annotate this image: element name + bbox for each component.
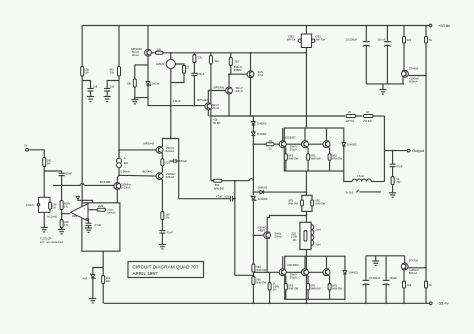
wire BC549B emitter down to box [116,189,118,202]
resistor 3k3 (VAS load top) [209,53,219,116]
transistor driver NPN BD241C [234,65,264,78]
node 560 line tap x=234.8 [234,180,236,182]
label To 3k3 feedback stub [345,190,381,194]
wire rail B gap join [118,150,120,158]
ground (below 1n8 right) [104,97,111,102]
resistor 22K 1% (input shunt) [49,202,57,209]
wire driver emitter down to rail [250,78,252,116]
resistor 0R1 WW-5W (upper 3) [328,148,342,171]
wire bus below L block to lower box [305,250,307,257]
diode 1N4003 (upper ladder 1) [252,122,267,126]
transistor MJ15003 upper 3 [323,128,330,148]
svg-text:1N4003: 1N4003 [257,132,267,136]
transistor lower driver BD240C [258,225,282,238]
svg-text:20mA: 20mA [212,106,219,110]
svg-text:10: 10 [366,110,369,114]
svg-text:25mA: 25mA [290,276,297,280]
resistor 0R1 WW-5W (lower 1) [284,276,298,300]
node 3k3 bottom rail [403,302,405,304]
resistor 820R 1% [60,185,70,209]
svg-text:WW-5W: WW-5W [288,157,298,161]
resistor 0R1 WW-5W (upper 2) [307,148,321,171]
wire branch to zener 4v8 [93,268,103,275]
ground (input network) [41,228,48,232]
wire input node line y=185.4 with hop [53,183,114,185]
wire branch to 100nF [44,171,61,173]
ground (top strip) [380,84,387,94]
node 100pF base line [194,105,196,107]
svg-text:WW-5W: WW-5W [256,268,266,272]
capacitor 100uF (top) [377,26,391,84]
wire cap2 to ground [106,91,108,97]
svg-text:MJ15003: MJ15003 [285,135,297,139]
wire cap to ground [90,91,92,97]
inductor 1.5uH output coil [352,174,371,182]
wire bus below 0R3 block [305,211,307,222]
diode LM329 [156,53,175,73]
node driver PNP base tap [253,234,255,236]
wire cap box to ground [43,212,45,227]
node base line LM329 [170,105,172,107]
ground (below 22K) [58,230,65,234]
svg-text:WW-5W: WW-5W [332,157,342,161]
svg-text:MJ15003: MJ15003 [288,263,300,267]
wire 10k bottom [135,87,148,98]
svg-text:1N4003: 1N4003 [257,122,267,126]
capacitor 47uF 63V [179,194,235,201]
svg-text:1N4003: 1N4003 [347,143,357,147]
box lower output devices [285,256,345,299]
svg-text:1%: 1% [165,215,169,219]
svg-text:WW-5W: WW-5W [332,286,342,290]
box upper output devices [284,128,344,171]
diode 1N4003 (upper box edge) [342,143,357,147]
svg-text:4v8: 4v8 [83,277,88,281]
svg-text:100: 100 [157,47,162,51]
node 47uF to drop wire [234,198,236,200]
svg-text:1%: 1% [64,205,68,209]
wire driver base line [229,73,247,75]
node VAS top tie [170,138,172,140]
svg-text:3uH: 3uH [316,243,321,247]
label TL071CP note [40,236,63,244]
svg-text:0.8mA: 0.8mA [173,99,181,103]
node upper base line tap [253,143,255,145]
node Output terminal [407,148,425,153]
svg-text:27k: 27k [198,56,203,60]
svg-text:To 3k3: To 3k3 [345,190,353,194]
resistor 23 [183,66,190,74]
capacitor 100uF input electrolytic box [26,197,50,212]
svg-text:WW-5W: WW-5W [288,286,298,290]
svg-text:8x3mA: 8x3mA [166,149,175,153]
resistor 1k2 2W [102,276,111,284]
svg-text:1.5uH: 1.5uH [357,174,364,178]
transistor MPSA92 (upper, at 229,90.5) [214,86,243,94]
transistor MPSA92 (lower, at 208,106.3) [197,98,219,110]
wire BC549C emitter down [161,179,163,211]
svg-text:ZTX750: ZTX750 [409,259,419,263]
ground (below 1n8 left) [87,97,94,102]
wire upper output base line [253,143,266,145]
wire bus connector to rail [305,48,307,129]
svg-text:WW-5W: WW-5W [288,202,298,206]
wire bus through lower box to rail [305,256,307,303]
wire current source to node [118,168,120,176]
resistor 22K 1% (lower) [60,220,69,230]
node bus rail junction [306,115,308,117]
svg-text:CIRCUIT DIAGRAM QUAD 707: CIRCUIT DIAGRAM QUAD 707 [133,264,199,269]
svg-text:15v/1W: 15v/1W [150,81,160,85]
resistor 15k 1W [81,67,90,77]
wire drop to MPSA93 [147,26,149,50]
ground (bottom strip) [372,256,379,266]
wire ladder B to bottom rail [252,285,254,304]
svg-text:1%: 1% [293,238,297,242]
zener 15v 1W [146,79,159,98]
resistor 5k (top right) [425,26,433,44]
diode 1N4003 (lower box edge) [343,271,358,275]
resistor 560 WW-5W (ladder A) [252,264,267,272]
resistor 0R3 WW-5W with 0R1 WW-5W parallel block [288,195,326,211]
wire lower base line inside box [286,271,323,273]
resistor 0R1 WW-5W (upper 1) [284,148,298,171]
node ZTX750 base tap [425,267,427,269]
svg-text:(+15mV): (+15mV) [47,214,57,218]
transistor ZTX450 [402,67,420,84]
svg-text:420mA: 420mA [166,175,175,179]
wire MPSA92 emitter down to rail [207,110,209,116]
wire ladder top from rail [252,116,254,122]
svg-text:2k0: 2k0 [124,161,129,165]
svg-text:WW-5W: WW-5W [311,286,321,290]
wire VAS stub y=180.7 [211,116,214,181]
transistor BC549C [143,169,177,179]
ground flag symbol above op-amp [76,196,92,202]
capacitor 10,000uF (bottom) [363,256,381,303]
wire mid collector rail [210,115,346,117]
svg-text:0.56mA: 0.56mA [121,170,130,174]
wire input to 560 [28,150,44,158]
resistor 100 (horizontal) [151,47,163,54]
wire y=52.8 line to bus [163,52,306,54]
svg-text:R//B: R//B [72,214,77,218]
wire MPSA93 emitter down to zener node [147,56,149,78]
svg-text:APRIL 1997: APRIL 1997 [133,271,158,276]
transistor MJ15003 lower 2 [302,256,309,276]
capacitor 33nF [159,230,173,244]
resistor 1k 1/2W 1% [268,272,279,303]
svg-text:350: 350 [234,60,239,64]
svg-text:33nF: 33nF [167,230,173,234]
resistor 0R1 WW-5W (lower 2) [307,276,321,300]
node ladder base line lower [253,271,255,273]
svg-text:1n8: 1n8 [110,85,115,89]
node bottom cap2 rail [385,302,387,304]
wire LM329 right branch to 23 resistor [175,64,184,66]
node -53.4v terminal [429,301,448,306]
wire Miller branch x=178.7 [178,139,180,199]
wire MPSA06 collector up to driver base line [228,74,230,87]
svg-text:25mA: 25mA [290,148,297,152]
resistor 22 2W 5% [346,110,356,123]
wire right output corner drop [383,116,385,182]
svg-text:-: - [171,70,172,73]
wire coil to upper box corner [344,171,352,182]
svg-text:WW-5W: WW-5W [256,280,266,284]
svg-text:WW-5W: WW-5W [315,202,325,206]
zener 1N4003 (ladder mid) [251,196,268,201]
svg-text:2M2: 2M2 [98,204,104,208]
wire link from x234.8 [235,274,254,276]
svg-text:3k3: 3k3 [214,59,219,63]
wire ladder to driver base [252,200,254,264]
node Miller cap join [178,160,180,162]
node driver collector bus junction [306,215,308,217]
svg-text:100uF: 100uF [26,203,34,207]
svg-text:MPSA92: MPSA92 [197,98,208,102]
svg-text:22: 22 [348,110,351,114]
node zobel tap [392,150,394,152]
node LM329 tap [170,52,172,54]
node IN terminal [25,143,29,151]
svg-text:4.7uF: 4.7uF [94,223,101,227]
capacitor 10,000uF (top) [346,26,370,84]
capacitor 1n8 (right) [104,85,114,91]
svg-text:1W: 1W [85,71,89,75]
svg-text:100nF: 100nF [64,171,72,175]
svg-text:2W: 2W [396,180,400,184]
svg-text:1n8: 1n8 [93,85,98,89]
resistor 1k5 1% [161,212,170,231]
wire LM329 column down to VAS top [170,106,172,139]
svg-text:1%: 1% [47,162,51,166]
wire driver base line [253,234,263,236]
inductor damped L-R block 220 1/2W [291,222,321,249]
ground (below 10k) [131,98,138,104]
svg-text:2W: 2W [106,279,110,283]
box servo shield [82,203,120,251]
svg-text:LM329: LM329 [156,62,165,66]
zener 4v8 [83,274,96,299]
transistor MJ15003 upper 1 [279,128,297,152]
wire ZTX750 emitter to strip [404,256,406,263]
connector GB1 [287,26,326,48]
capacitor 330pF [170,159,188,163]
svg-text:MPSA06: MPSA06 [214,86,225,90]
svg-text:2uH: 2uH [316,228,321,232]
op-amp TL071 [71,204,89,221]
svg-text:10,000uF: 10,000uF [346,37,358,41]
svg-text:IN: IN [25,143,28,147]
wire 23 bottom joins LM329 bottom [171,73,184,83]
svg-text:1%: 1% [52,205,56,209]
svg-text:2R: 2R [269,139,272,143]
node ladder rail [253,115,255,117]
svg-text:1/5 : not connected: 1/5 : not connected [40,240,63,244]
node MPSA43 base tap [118,149,120,151]
svg-text:1%: 1% [64,223,68,227]
svg-text:WH-Slt: WH-Slt [287,38,296,42]
wire ZTX450 emitter to strip [402,77,404,84]
svg-text:WH-Twt: WH-Twt [316,38,326,42]
svg-text:3mA: 3mA [258,73,264,77]
svg-text:1N4003: 1N4003 [258,186,268,190]
node bottom cap1 rail [365,302,367,304]
diode 1N4003 (upper ladder 2) [252,132,267,136]
wire top supply rail [82,25,429,27]
wire MPSA06 emitter to rail [228,94,230,116]
svg-text:20mA: 20mA [236,89,243,93]
svg-text:MPSA43: MPSA43 [144,142,155,146]
wire top ground strip [366,83,404,85]
resistor 10 2W 5% [363,110,373,123]
svg-text:-53.4v: -53.4v [438,301,449,306]
wire y=192 line from ladder to bus [253,191,306,193]
node BC549C base line [118,174,120,176]
capacitor 47uF zobel [390,151,403,177]
ground (zobel) [389,193,396,197]
node ladder bottom rail [253,302,255,304]
svg-text:500mA: 500mA [409,79,418,83]
wire LM329 bottom down to base line [170,69,172,106]
resistor 220 [161,159,170,173]
node ladder 192 tap [253,191,255,193]
svg-text:+53.8v: +53.8v [438,23,450,28]
svg-text:1N4003: 1N4003 [348,271,358,275]
node driver base line [228,73,230,75]
wire ZTX750 base line [408,267,426,269]
resistor 2M2 feedback sense [88,204,116,215]
svg-text:150uF: 150uF [389,276,397,280]
svg-text:+4BF1: +4BF1 [258,228,266,232]
svg-text:330pF: 330pF [179,159,187,163]
wire ladder down through taps [252,136,254,196]
svg-text:25mw: 25mw [275,234,282,238]
wire rail B x=119 [118,26,120,159]
node 1k bottom rail [269,302,271,304]
svg-text:3k3: 3k3 [407,38,412,42]
ground (op-amp cap) [85,228,92,232]
svg-text:drivout: drivout [107,211,115,215]
ground (zener 4v8) [89,299,96,303]
wire lower driver emitter down [266,239,268,273]
svg-text:1N4003: 1N4003 [258,197,268,201]
resistor 10k [127,65,149,87]
transistor BC549B (servo buffer) [100,180,131,189]
wire branch to cap 1n8 right [107,81,119,89]
svg-text:WW-5W: WW-5W [311,157,321,161]
wire bottom ground strip [366,255,405,257]
title box CIRCUIT DIAGRAM QUAD 707 APRIL 1997 [128,262,204,278]
transistor MJ15003 lower 1 [279,256,297,279]
resistor 3k3 (bottom right) [403,270,412,303]
svg-text:47uF: 47uF [396,164,402,168]
wire output line left of corner [371,181,384,183]
wire bottom supply rail [104,302,430,304]
resistor 3k3 (top right) [403,26,412,71]
wire mid rail segment to right corner [374,115,385,117]
svg-text:100 uF: 100 uF [377,37,386,41]
transistor ZTX750 [401,259,419,276]
capacitor 4.7uF op-amp [86,219,102,228]
resistor 0R1 WW-5W (lower 3) [328,276,342,300]
node 100nF junction [61,185,63,187]
node 192 bus junction [306,191,308,193]
svg-text:1W: 1W [110,71,114,75]
wire mid rail segment between bridge resistors [356,115,363,117]
capacitor 100nF [59,171,73,185]
wire lower output base line [253,271,279,273]
wire 560 down to cap box [43,167,45,198]
svg-text:2W 5%: 2W 5% [346,119,355,123]
resistor 350 [229,53,239,74]
svg-text:YE BK: YE BK [213,121,221,125]
wire MPSA43 base line [119,149,156,151]
wire base line to BC549C [119,174,156,177]
wire MPSA43 collector up to top tie [162,139,178,147]
svg-text:WW-5W: WW-5W [214,186,224,190]
svg-text:A: A [124,156,126,160]
wire driver collector up to y53 line [250,53,252,71]
svg-text:23: 23 [186,66,189,70]
node lower box bottom rail [306,302,308,304]
node driver collector [250,52,252,54]
resistor 22R base feed [266,139,279,151]
svg-text:TL071CP: TL071CP [40,236,52,240]
svg-text:500mA: 500mA [409,271,418,275]
transistor MPSA93 [131,47,151,57]
svg-text:44BF2: 44BF2 [234,68,242,72]
wire bus through upper box [305,171,307,195]
wire output line to terminal [384,150,407,152]
node ZTX450 base tap [425,75,427,77]
capacitor 100pF [191,63,204,106]
node +53.8v terminal [429,23,450,28]
capacitor 1n8 (left) [88,85,98,91]
wire 560 to ladder with hop [222,179,253,181]
wire zener node down and right to MPSA92 base line [148,98,205,106]
svg-text:10,000uF: 10,000uF [369,276,381,280]
capacitor 100uF (bottom) [383,256,398,303]
svg-text:2W 5%: 2W 5% [363,119,372,123]
resistor 560 1% [43,158,52,167]
resistor 27k [193,53,203,63]
wire lower driver collector up and right to bus [267,216,306,232]
resistor 10 2W zobel [391,177,401,193]
svg-text:2x10mA: 2x10mA [121,185,131,189]
wire ZTX450 base line [408,75,426,77]
svg-text:Output: Output [412,148,425,153]
svg-text:3k3: 3k3 [407,283,412,287]
label wire code 41B YE BK [213,118,221,125]
label +15mV node [47,210,71,220]
wire bias rail x=426 full drop [425,43,427,281]
svg-text:BC549C: BC549C [143,169,153,173]
resistor 5k1 1W [110,67,121,77]
transistor MPSA43 [156,146,174,153]
svg-text:10k: 10k [127,82,132,86]
resistor 560 WW-5W (ladder B) [252,277,267,285]
wire branch to cap 1n8 left [82,81,90,89]
wire lower base line [252,272,254,277]
wire between ladder diodes [252,125,254,132]
wire MPSA06 base left to MPSA92 collector [208,91,225,103]
diode 1N4003 (horizontal on 192 line) [258,186,268,194]
resistor 560 WW-5W [214,179,225,190]
ground (BC549C emitter chain) [159,245,166,249]
svg-text:BC549B: BC549B [100,180,110,184]
